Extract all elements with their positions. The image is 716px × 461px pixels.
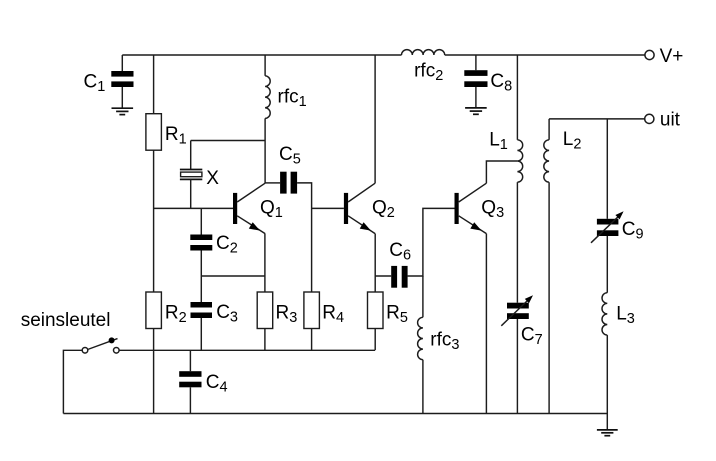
svg-text:V+: V+ — [660, 46, 684, 67]
wire uit node to C9 — [606, 119, 608, 219]
transistor Q2 — [344, 183, 395, 233]
resistor R3 — [257, 292, 297, 329]
wire Q2 emitter branch to C6 — [375, 275, 391, 277]
wire Q1 base — [154, 207, 233, 209]
wire ground stub below rail — [606, 414, 608, 430]
transistor Q3 — [455, 183, 505, 233]
svg-text:C6: C6 — [389, 240, 411, 264]
svg-text:Q1: Q1 — [260, 198, 283, 222]
wire R2 bottom to ground rail — [153, 329, 155, 414]
wire ground rail — [63, 413, 607, 415]
wire rail to C8 — [475, 55, 477, 70]
svg-text:Q2: Q2 — [372, 198, 395, 222]
inductor rfc3 — [418, 317, 460, 359]
wire Q3 emitter to ground rail — [485, 234, 487, 414]
svg-text:R5: R5 — [386, 303, 408, 327]
wire C5 to R4 top via Q2 base node — [297, 183, 312, 292]
svg-text:Q3: Q3 — [481, 198, 504, 222]
svg-text:C2: C2 — [216, 233, 238, 257]
wire C6 to Q3 base node — [408, 208, 455, 276]
wire crystal bottom lead — [190, 179, 192, 208]
wire C4 bottom to ground rail — [189, 387, 191, 413]
svg-text:uit: uit — [660, 109, 681, 130]
wire L2 bottom to ground rail — [548, 182, 550, 413]
svg-text:C7: C7 — [521, 325, 543, 349]
wire rail to rfc1 — [264, 55, 266, 76]
capacitor C4 — [179, 371, 227, 395]
variable capacitor C7 — [501, 295, 542, 348]
wire L1 bottom to C7 — [516, 182, 518, 303]
wire uit line — [549, 118, 645, 120]
wire R1 bottom to base node to R2 — [153, 150, 155, 292]
wire Q2 collector to rail — [374, 55, 376, 183]
wire uit to L2 — [548, 119, 550, 140]
resistor R1 — [146, 114, 187, 151]
svg-text:R2: R2 — [165, 303, 187, 327]
wire C4 top lead — [189, 350, 191, 371]
wire L3 bottom to ground rail — [606, 335, 608, 413]
inductor L1 — [489, 129, 523, 182]
capacitor C1 — [84, 55, 134, 108]
svg-text:C4: C4 — [206, 372, 228, 396]
svg-text:rfc1: rfc1 — [278, 87, 307, 111]
svg-text:seinsleutel: seinsleutel — [21, 310, 111, 331]
wire Q1 emitter to R3 — [264, 234, 266, 292]
svg-text:C9: C9 — [622, 219, 644, 243]
wire rail to L1 — [516, 55, 518, 140]
wire C2 to C3 — [200, 251, 202, 303]
wire switch to left drop — [63, 350, 82, 413]
wire crystal top lead — [190, 141, 192, 170]
variable capacitor C9 — [591, 211, 644, 243]
wire C2 top lead — [200, 208, 202, 234]
wire C7 bottom to ground rail — [516, 319, 518, 414]
wire R5 bottom to key rail — [374, 329, 376, 351]
svg-text:L3: L3 — [616, 304, 635, 328]
wire Q3 collector to L1 tap — [486, 161, 517, 183]
resistor R2 — [146, 292, 187, 329]
capacitor C5 — [279, 144, 301, 193]
wire crystal branch horizontal — [191, 140, 265, 142]
inductor rfc2 — [402, 50, 445, 84]
inductor L3 — [602, 293, 635, 335]
wire emitter branch to C2C3 node — [201, 275, 265, 277]
svg-text:C5: C5 — [279, 144, 301, 168]
resistor R5 — [368, 292, 408, 329]
inductor rfc1 — [265, 76, 307, 119]
wire R3 bottom to key rail — [264, 329, 266, 351]
svg-text:L1: L1 — [489, 129, 508, 153]
wire R4 bottom to key rail — [311, 329, 313, 351]
switch (seinsleutel key) — [82, 337, 119, 353]
wire rfc1 to Q1 collector node — [264, 118, 266, 183]
wire top supply rail left segment — [122, 54, 401, 56]
resistor R4 — [304, 292, 344, 329]
wire C3 bottom to key rail — [200, 318, 202, 350]
capacitor C2 — [190, 233, 238, 257]
svg-text:C1: C1 — [84, 71, 106, 95]
ground (C8) — [465, 108, 487, 114]
wire rfc3 bottom to ground rail — [422, 360, 424, 414]
wire key rail — [119, 349, 375, 351]
terminal uit — [645, 109, 681, 130]
svg-text:X: X — [206, 168, 219, 189]
inductor L2 — [544, 129, 582, 182]
wire C9 to L3 — [606, 236, 608, 293]
ground (C1) — [112, 108, 134, 114]
wire Q1 collector to C5 — [265, 182, 280, 184]
wire Q2 emitter to R5 — [374, 234, 376, 292]
ground (main) — [597, 430, 618, 436]
capacitor C8 — [464, 70, 512, 94]
terminal V+ — [645, 46, 683, 67]
svg-text:rfc2: rfc2 — [414, 60, 443, 84]
svg-text:R1: R1 — [165, 124, 187, 148]
wire C6 node to rfc3 — [422, 276, 424, 317]
wire top supply rail right segment — [445, 54, 645, 56]
capacitor C3 — [191, 302, 239, 326]
svg-text:R4: R4 — [322, 303, 344, 327]
wire rail to R1 — [153, 55, 155, 114]
svg-text:R3: R3 — [276, 303, 298, 327]
svg-text:rfc3: rfc3 — [430, 329, 459, 353]
svg-text:C3: C3 — [216, 302, 238, 326]
wire Q2 base — [312, 207, 344, 209]
crystal X — [180, 168, 219, 189]
wire C8 bottom lead — [475, 87, 477, 108]
transistor Q1 — [233, 183, 283, 233]
svg-text:L2: L2 — [563, 129, 582, 153]
capacitor C6 — [389, 240, 411, 288]
svg-text:C8: C8 — [490, 71, 512, 95]
